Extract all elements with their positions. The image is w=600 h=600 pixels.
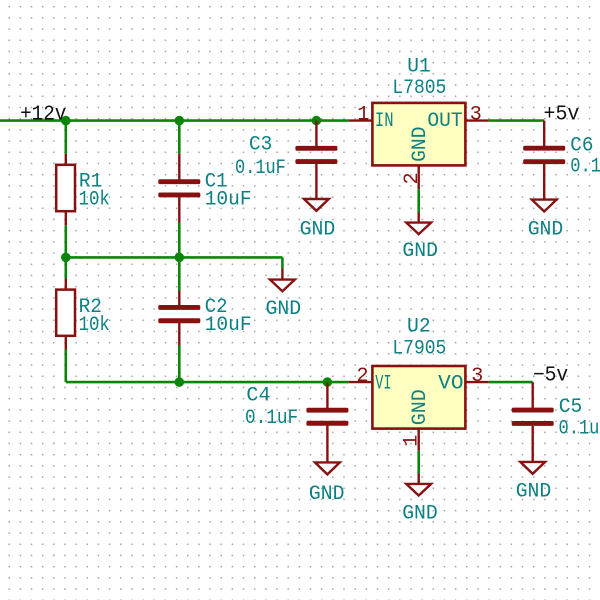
- ground (C3): [300, 199, 336, 241]
- wire R2 to bottom rail: [65, 350, 68, 383]
- junction: [175, 116, 185, 126]
- ground (C4): [309, 462, 345, 506]
- svg-text:3: 3: [471, 365, 483, 388]
- svg-text:10uF: 10uF: [205, 188, 252, 211]
- svg-text:10uF: 10uF: [205, 314, 252, 337]
- wire +12v rail to C1: [178, 121, 181, 154]
- svg-text:10k: 10k: [79, 314, 110, 337]
- wire +12v rail: [0, 119, 349, 122]
- U2 pin 1 (GND): [401, 429, 424, 451]
- svg-text:IN: IN: [375, 110, 394, 133]
- resistor R2: [56, 279, 110, 350]
- svg-text:GND: GND: [402, 240, 438, 263]
- junction: [61, 253, 71, 263]
- capacitor C2: [158, 291, 251, 346]
- svg-text:2: 2: [401, 172, 424, 184]
- capacitor C6: [523, 121, 600, 200]
- svg-text:C3: C3: [249, 134, 272, 157]
- U1 pin 2 (GND): [401, 165, 424, 189]
- svg-text:GND: GND: [300, 218, 336, 241]
- svg-text:L7805: L7805: [392, 77, 446, 100]
- svg-text:10k: 10k: [79, 188, 110, 211]
- svg-text:0.1uF: 0.1uF: [245, 407, 298, 430]
- svg-text:2: 2: [357, 365, 369, 388]
- svg-text:GND: GND: [516, 481, 552, 504]
- capacitor C5: [512, 382, 600, 462]
- wire U1 GND pin to ground: [417, 189, 420, 212]
- capacitor C3: [235, 121, 337, 200]
- ground (C6): [528, 200, 564, 242]
- svg-text:GND: GND: [409, 127, 432, 162]
- svg-text:GND: GND: [402, 502, 438, 525]
- svg-text:GND: GND: [409, 389, 432, 425]
- svg-text:U2: U2: [407, 315, 431, 338]
- resistor R1: [56, 154, 110, 226]
- svg-text:GND: GND: [309, 483, 345, 506]
- svg-text:VI: VI: [375, 373, 391, 396]
- svg-text:0.1uF: 0.1uF: [559, 418, 600, 441]
- wire C1 to mid rail: [178, 223, 181, 258]
- svg-text:+12v: +12v: [20, 103, 66, 126]
- ground (mid rail): [266, 269, 302, 322]
- U2 pin 3: [465, 365, 488, 388]
- svg-text:L7905: L7905: [392, 338, 446, 361]
- junction: [323, 377, 333, 387]
- U1 pin 3: [465, 103, 488, 126]
- svg-text:1: 1: [401, 435, 424, 447]
- svg-text:GND: GND: [266, 298, 302, 321]
- capacitor C4: [245, 382, 348, 462]
- ground (U2): [402, 474, 438, 526]
- svg-text:0.1uF: 0.1uF: [570, 156, 600, 179]
- voltage regulator U2 L7905: [372, 315, 465, 428]
- svg-text:VO: VO: [438, 373, 463, 396]
- svg-text:OUT: OUT: [427, 110, 462, 133]
- U1 pin 1: [349, 103, 373, 126]
- svg-text:−5v: −5v: [533, 364, 568, 387]
- wire +12v rail to R1: [65, 121, 68, 154]
- wire bottom rail: [66, 381, 349, 384]
- wire mid rail: [66, 256, 283, 259]
- capacitor C1: [158, 154, 251, 223]
- junction: [312, 116, 322, 126]
- wire R1 to mid rail: [65, 225, 68, 257]
- wire U2 VO to -5v node: [489, 381, 533, 384]
- junction: [61, 116, 71, 126]
- svg-text:C6: C6: [570, 135, 593, 158]
- wire C2 to bottom rail: [178, 346, 181, 383]
- wire mid rail to ground: [281, 257, 284, 268]
- svg-text:C4: C4: [246, 384, 270, 407]
- junction: [175, 377, 185, 387]
- svg-text:+5v: +5v: [544, 103, 580, 126]
- wire U1 OUT to +5v node: [489, 119, 545, 122]
- wire mid rail to R2: [65, 257, 68, 278]
- junction: [175, 253, 185, 263]
- wire mid rail to C2: [178, 257, 181, 290]
- wire U2 GND pin to ground: [417, 451, 420, 474]
- svg-text:3: 3: [470, 103, 482, 126]
- voltage regulator U1 L7805: [372, 55, 465, 165]
- ground (U1): [402, 213, 438, 264]
- svg-text:U1: U1: [407, 55, 430, 78]
- ground (C5): [516, 462, 552, 504]
- svg-text:C5: C5: [559, 396, 583, 419]
- svg-text:1: 1: [357, 103, 369, 126]
- svg-text:0.1uF: 0.1uF: [235, 157, 286, 180]
- U2 pin 2: [349, 365, 373, 388]
- svg-text:GND: GND: [528, 218, 564, 241]
